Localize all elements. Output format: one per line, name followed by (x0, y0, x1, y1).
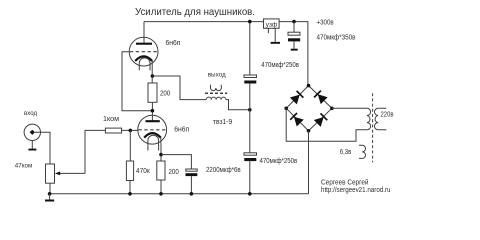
node 350v cap junction (292, 20, 296, 24)
ground C4 (291, 49, 298, 51)
svg-text:6н6п: 6н6п (174, 125, 189, 134)
transformer T1 secondary (211, 85, 222, 91)
diode VD4 (bottom-right edge) (314, 113, 328, 127)
wire C4 to ground (293, 41, 295, 48)
transformer T2 primary 220в (375, 108, 379, 130)
svg-text:2200мкф*6в: 2200мкф*6в (206, 165, 241, 174)
wire bridge right to T2 HV winding (332, 107, 367, 109)
node K2 junction (159, 153, 163, 157)
node B+ rail (144, 22, 308, 86)
wire cathode V1 down to node K1 (151, 61, 153, 83)
node K1 junction (151, 74, 155, 78)
tube envelope V1 (129, 37, 158, 66)
node bus C1 junction (190, 192, 194, 196)
pin stub U1 (267, 28, 269, 33)
svg-text:+300в: +300в (317, 17, 334, 26)
filter block U1 УЗФ (264, 19, 280, 28)
svg-text:http://sergeev21.narod.ru: http://sergeev21.narod.ru (321, 185, 391, 194)
anode lead inside V1 (143, 37, 145, 44)
capacitor C2 470мкф*250в (upper) (244, 75, 257, 84)
capacitor C4 470мкф*350в (288, 32, 300, 41)
svg-text:вход: вход (24, 110, 37, 117)
tube envelope V2 (138, 115, 167, 144)
svg-text:выход: выход (208, 72, 226, 79)
svg-text:470мкф*250в: 470мкф*250в (260, 156, 298, 165)
svg-text:6,3в: 6,3в (340, 147, 352, 156)
wire R2 to grid V2 (122, 129, 139, 131)
svg-text:200: 200 (160, 88, 170, 97)
triode V1 (top 6н6п) (129, 37, 158, 71)
node bus pot junction (48, 192, 52, 196)
node bus R4 junction (128, 192, 132, 196)
potentiometer R1 47ком (46, 164, 55, 183)
node bridge left (284, 107, 288, 111)
ground under jack (31, 141, 33, 149)
ground U1 (274, 28, 276, 42)
capacitor C1 2200мкф*6в (186, 169, 198, 176)
node bridge right (330, 107, 334, 111)
svg-text:узф: узф (266, 21, 278, 28)
resistor R4 470к (126, 161, 133, 181)
node bridge top (307, 84, 311, 88)
node anode V2 junction (151, 109, 155, 113)
wire T2 HV bottom to bridge left (286, 108, 367, 141)
cathode arc V1 (135, 56, 152, 61)
svg-text:6н6п: 6н6п (166, 38, 181, 47)
transformer T1 твз1-9 primary (206, 97, 226, 99)
wiper arrow R1 (60, 172, 85, 174)
diode VD1 (left-top edge) (290, 91, 304, 105)
input connector X1 (24, 124, 40, 140)
anode lead inside V2 (151, 115, 153, 121)
transformer T1 core (205, 92, 227, 94)
grid (dashed) V1 (130, 51, 158, 53)
cathode arc V2 (144, 133, 161, 138)
wire top rail right (UZF to +300v corner, down to bridge top) (279, 22, 308, 86)
resistor R2 1ком (105, 128, 121, 133)
ground bus (49, 193, 308, 195)
heater V2 (148, 135, 159, 150)
node bridge bottom (307, 129, 311, 133)
node M junction (248, 108, 252, 112)
svg-text:200: 200 (169, 167, 179, 176)
svg-text:470к: 470к (136, 166, 150, 175)
capacitor C3 470мкф*250в (lower) (244, 153, 257, 161)
diode bridge VD1-VD4 (286, 86, 332, 131)
wire bridge bottom to bus (308, 131, 310, 194)
svg-text:47ком: 47ком (15, 162, 33, 169)
wire R4 to bus (129, 181, 131, 194)
resistor R5 200 (cathode V2) (157, 161, 165, 180)
transformer T2 HV winding (367, 108, 371, 130)
wire T2 primary leads (378, 108, 386, 130)
node bus R5 junction (159, 192, 163, 196)
diode VD3 (bottom-left edge) (290, 113, 304, 127)
wire pot bottom to bus (49, 183, 51, 194)
wire K2 to C1 (161, 155, 191, 169)
resistor R3 200 (SRPP) (148, 83, 157, 102)
wire B+ branch down (249, 22, 251, 75)
svg-text:твз1-9: твз1-9 (213, 117, 232, 126)
wire rail to C4 (293, 22, 295, 33)
triode V2 (bottom 6н6п) (138, 115, 167, 151)
wire grid V1 to node between tubes (122, 52, 153, 111)
wire node down to R4 (129, 130, 131, 161)
anode plate V1 (136, 43, 152, 45)
svg-text:1ком: 1ком (103, 114, 119, 123)
heater V1 (139, 58, 150, 71)
ground main (49, 194, 51, 200)
wire R5 to bus (160, 180, 162, 194)
svg-text:220в: 220в (381, 110, 394, 119)
wire cathode V2 to node K2 (160, 138, 162, 161)
wire wiper up to R2 (85, 130, 105, 173)
wire C1 to bus (190, 176, 192, 194)
wire K1 to output transformer primary (152, 76, 206, 100)
wire C3 to bus (249, 161, 251, 194)
wire C2 to node M and to C3 (249, 84, 251, 153)
svg-text:470мкф*250в: 470мкф*250в (261, 60, 299, 69)
wire jack to pot top (35, 132, 50, 164)
wire T1 primary right to node M (226, 100, 250, 110)
bridge frame (286, 86, 332, 131)
node B+ branch junction (248, 20, 252, 24)
wire 6,3в stubs (359, 145, 362, 158)
wire R3 bottom to anode V2 (151, 102, 153, 121)
anode plate V2 (146, 120, 160, 122)
wire top rail left (anode V1 to UZF) (144, 21, 264, 23)
transformer T2 heater winding 6,3в (362, 145, 365, 158)
transformer T2 core (372, 93, 374, 162)
diode VD2 (top-right edge) (314, 91, 328, 105)
svg-text:470мкф*350в: 470мкф*350в (317, 33, 356, 42)
jack ring (24, 124, 40, 140)
jack pin (30, 130, 35, 135)
node grid V2 junction (129, 129, 133, 133)
wire anode lead V1 (143, 22, 145, 44)
grid (dashed) V2 (138, 129, 166, 131)
svg-text:Усилитель для наушников.: Усилитель для наушников. (135, 7, 255, 18)
node bus C3 junction (248, 192, 252, 196)
